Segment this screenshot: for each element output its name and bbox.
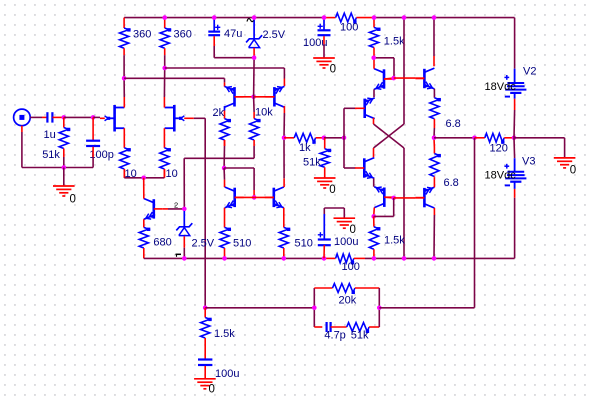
resistor 100 (rail, R3): [324, 13, 374, 23]
wire 51k bottom to gnd row: [63, 157, 65, 168]
ground 0 below C2: [313, 58, 336, 76]
svg-text:20k: 20k: [339, 295, 357, 307]
zener 2.5V D1 symbol: [246, 19, 262, 48]
resistor 51k (feedback, R21): [347, 323, 369, 332]
wire 360-left bottom to node A: [123, 55, 125, 78]
node D2 junction (Q3 base / zener): [182, 207, 187, 212]
feedback node junction (J2 gate / 1.5k / 20k): [203, 306, 208, 311]
svg-text:V3: V3: [522, 156, 535, 168]
svg-text:4.7p: 4.7p: [324, 330, 345, 342]
pin mark 1 of D2: [176, 253, 182, 255]
wire 2k bottom to node E: [224, 140, 226, 146]
svg-text:2: 2: [174, 201, 178, 210]
top supply rail wire (V+ rail): [124, 17, 324, 19]
wire R7 bottom to tail node: [163, 169, 165, 178]
input source V1 (circle symbol): [14, 109, 31, 126]
wire Q6 collector down to X: [373, 118, 375, 124]
wire C5 top U-path to ground: [323, 208, 325, 214]
ground 0 at bottom: [194, 379, 216, 396]
svg-text:18Vdc: 18Vdc: [485, 81, 517, 93]
resistor 6.8 (lower, R17): [430, 148, 441, 178]
junction x404 wire on rail: [402, 15, 407, 20]
junction D2 anode on bottom rail: [182, 256, 187, 261]
diode-tie node junction: [371, 214, 376, 219]
wire Q10 collector down to bottom rail: [433, 208, 435, 215]
wire V2- lead down to supply mid node: [514, 93, 516, 99]
junction Q7 collector on rail: [432, 15, 437, 20]
supply mid node junction: [512, 136, 517, 141]
row A wire to Q1 emitter: [124, 77, 224, 79]
node 1.5k-bottom junction: [371, 56, 376, 61]
node I junction (Q9 base): [391, 196, 396, 201]
svg-text:1.5k: 1.5k: [384, 235, 405, 247]
wire Q8 base stub: [355, 167, 356, 169]
wire R22 to C7: [204, 345, 206, 359]
capacitor 47u C1 plates: [208, 25, 220, 36]
wire Q5 collector up to mid node: [283, 178, 285, 187]
junction 510-left on bottom rail: [222, 256, 227, 261]
top rail wire right of 100 resistor: [374, 17, 515, 19]
wire node C to node D: [64, 116, 93, 118]
junction 1.5k R4 on rail: [372, 15, 377, 20]
svg-text:1k: 1k: [299, 142, 311, 154]
svg-text:0: 0: [330, 64, 336, 76]
wire 4.7p to 51k: [331, 326, 347, 328]
feedback column wire (x=205) down to feedback node: [204, 118, 206, 307]
ground 0 below R14: [314, 178, 336, 196]
voltage source V3 18Vdc: [485, 156, 536, 186]
bottom rail wire right of 100 resistor: [365, 257, 515, 259]
resistor 1k (R13): [284, 133, 324, 143]
svg-text:6.8: 6.8: [444, 177, 459, 189]
junction 1.5k-lower on bottom rail: [372, 256, 377, 261]
lower common base node junction: [252, 195, 257, 200]
svg-text:18Vdc: 18Vdc: [485, 170, 517, 182]
resistor 51k (input, R5): [59, 117, 70, 157]
wire Q8 collector up to X: [373, 148, 375, 157]
svg-text:510: 510: [233, 238, 251, 250]
svg-text:1.5k: 1.5k: [384, 36, 405, 48]
resistor 10k (R10): [250, 119, 261, 146]
svg-text:1u: 1u: [44, 129, 56, 141]
row B wire to Q2 emitter: [165, 67, 285, 69]
wire Q6 base stub: [355, 107, 357, 109]
node A junction (360-left / row A / J1 drain): [122, 76, 127, 81]
resistor 1.5k (lower, R16): [369, 227, 380, 259]
capacitor 4.7p C6: [327, 322, 331, 332]
wire J1 source down to 10-ohm resistor: [123, 128, 125, 148]
wire node G down to Q8 base: [343, 138, 345, 168]
node C junction: [62, 115, 67, 120]
pin mark 2 of D1: [247, 19, 254, 22]
feedback tap node junction: [472, 136, 477, 141]
capacitor 100u C2 top lead from rail: [323, 18, 325, 30]
svg-text:680: 680: [153, 237, 171, 249]
capacitor 100u C5 top lead: [323, 214, 325, 239]
feedback box left edge wire: [313, 288, 315, 327]
svg-text:0: 0: [570, 165, 576, 177]
svg-text:51k: 51k: [42, 149, 60, 161]
svg-text:360: 360: [174, 29, 192, 41]
wire Q5A collector to 1.5k node: [373, 58, 375, 69]
capacitor 47u C1 top lead from rail: [213, 18, 215, 32]
wire Q7 emitter to 6.8-upper: [433, 89, 435, 98]
wire Q5 base: [254, 196, 274, 198]
wire node D to J1 gate: [93, 116, 100, 118]
node box-right junction: [377, 306, 382, 311]
resistor 680 (R8): [139, 227, 150, 258]
wire Q7 base stub: [415, 77, 424, 79]
row C wire (10k bottom to D2 top column): [184, 157, 254, 159]
capacitor 1u C3: [47, 112, 52, 122]
row D wire node E to lower base column: [224, 167, 254, 169]
svg-text:100u: 100u: [215, 368, 239, 380]
svg-text:0: 0: [209, 384, 215, 396]
svg-text:0: 0: [70, 194, 76, 206]
transistor Q6 (upper driver): [356, 96, 375, 118]
input ground node junction: [62, 165, 67, 170]
wire 6.8-upper to output node: [433, 128, 435, 138]
wire D2 anode to bottom rail: [183, 236, 185, 247]
junction x404 on bottom rail: [402, 256, 407, 261]
wire 1.5k bottom node to Q5 base corner: [374, 57, 394, 59]
wire source bottom to gnd row: [21, 126, 23, 132]
resistor 10 (left, R6): [120, 148, 131, 178]
wire Q3 base to zener D2 node: [163, 208, 168, 210]
voltage source V2 18Vdc: [485, 66, 537, 97]
capacitor 100p C4 plates: [86, 141, 100, 146]
wire V+ rail corner down to V2+: [514, 18, 516, 69]
transistor Q4 (lower-left): [225, 187, 244, 209]
svg-text:120: 120: [490, 143, 508, 155]
wire Q1 base to common base node: [235, 96, 254, 98]
svg-text:V2: V2: [523, 66, 536, 78]
cross-couple diagonal X wire 1: [374, 124, 405, 148]
svg-text:51k: 51k: [303, 157, 321, 169]
wire output node to feedback tap node: [434, 137, 475, 139]
wire node H to Q7 base: [394, 77, 416, 79]
svg-text:0: 0: [329, 184, 335, 196]
common base node junction (Q1/Q2/10k): [251, 95, 256, 100]
ground 0 above bottom rail: [334, 218, 356, 236]
junction Q10 collector on bottom rail: [432, 256, 437, 261]
wire J2 drain up to node B: [163, 97, 165, 108]
resistor 51k (mid, R14): [320, 138, 331, 178]
svg-text:6.8: 6.8: [446, 118, 461, 130]
wire Q5 emitter to 510-right: [283, 208, 285, 228]
transistor Q2 (upper-right mirror): [265, 85, 284, 107]
capacitor 100u C7 plates: [198, 360, 212, 366]
node box-left junction: [312, 306, 317, 311]
wire C7 to bottom ground: [204, 366, 206, 378]
JFET J1 (left): [105, 105, 125, 132]
wire V3- lead down to bottom rail: [514, 182, 516, 189]
svg-text:2.5V: 2.5V: [192, 238, 215, 250]
svg-text:10k: 10k: [255, 107, 273, 119]
resistor 510 (right, R12): [279, 227, 290, 258]
svg-text:360: 360: [133, 29, 151, 41]
wire 100p bottom to gnd row: [92, 147, 94, 157]
wire Q2 base: [254, 96, 275, 98]
wire Q9 base to node I: [384, 196, 393, 199]
wire lower base column to base node: [253, 190, 255, 197]
ground 0 at input: [53, 186, 76, 206]
resistor 360 (right, R2): [160, 18, 171, 56]
wire Q1 collector to 2k: [224, 106, 226, 110]
svg-text:0: 0: [350, 224, 356, 236]
wire Q3 emitter to 680: [143, 219, 145, 227]
svg-text:2k: 2k: [213, 107, 225, 119]
bottom rail wire (V- rail): [144, 257, 324, 259]
JFET J2 (right): [165, 105, 185, 132]
wire Q10 base stub: [415, 197, 424, 199]
resistor 120 (R18): [475, 133, 515, 143]
transistor Q5a (top-left, Q5A): [374, 69, 393, 91]
capacitor 100p C4 top lead: [92, 117, 94, 140]
transistor Q10 (bottom-right follower): [415, 186, 434, 208]
wire diode-tie node to 1.5k lower: [373, 216, 375, 226]
feedback box right edge wire: [378, 288, 380, 327]
wire box to output tap corner: [379, 307, 474, 309]
node B junction (360-right / row B / J2 drain): [162, 66, 167, 71]
resistor 510 (left, R11): [220, 227, 231, 258]
wire Q2 collector down to mid node: [283, 106, 285, 113]
node E junction (2k / row D / Q4 collector): [222, 166, 227, 171]
transistor Q3 (tail current source): [144, 199, 163, 221]
wire Q10 emitter up to 6.8-lower: [433, 178, 435, 188]
wire Q5A emitter down to Q6 emitter: [373, 89, 375, 97]
junction 100u C2 on rail: [322, 15, 327, 20]
svg-text:1.5k: 1.5k: [214, 328, 235, 340]
wire R6 bottom to tail node: [123, 169, 125, 178]
resistor 360 (left, R1): [120, 18, 131, 56]
svg-text:100u: 100u: [334, 236, 358, 248]
junction 360-right on rail: [162, 15, 167, 20]
wire base node down to 10k: [253, 97, 256, 112]
wire C5 bottom to rail: [323, 245, 325, 258]
node H junction (Q5A base / Q7 base wire): [391, 76, 396, 81]
wire feedback node to 20k box: [205, 307, 314, 309]
resistor 10 (right, R7): [160, 148, 171, 178]
junction 100u-C5 on bottom rail: [322, 256, 327, 261]
wire supply mid node to right ground: [514, 137, 565, 139]
resistor 100 (bottom rail, R19): [324, 254, 365, 264]
wire 4.7p lead: [314, 326, 322, 328]
transistor Q7 (top-right follower): [415, 68, 434, 90]
svg-text:47u: 47u: [224, 28, 242, 40]
svg-text:10: 10: [166, 168, 178, 180]
wire node F to node G: [324, 137, 344, 139]
wire V2+ lead: [514, 69, 516, 83]
tail node junction: [141, 176, 146, 181]
capacitor 100u C2 plates: [318, 24, 331, 36]
resistor 1.5k (upper right, R4): [369, 18, 380, 58]
wire 1u to node C: [52, 116, 63, 118]
transistor Q8 (lower driver): [355, 158, 374, 180]
node D junction: [91, 115, 96, 120]
resistor 6.8 (upper, R15): [430, 98, 441, 128]
wire down to input ground: [63, 168, 65, 186]
wire rail to Q7 collector (x=434): [433, 18, 435, 56]
junction 510-right on bottom rail: [282, 256, 287, 261]
resistor 2k (R9): [220, 119, 231, 146]
resistor 20k (R20): [314, 284, 379, 294]
svg-text:100: 100: [340, 22, 358, 34]
wire source to 1u cap: [30, 116, 42, 118]
wire Q3 collector up to tail node: [143, 196, 145, 199]
svg-text:51k: 51k: [351, 330, 369, 342]
node zener D1 anode junction: [252, 55, 257, 60]
wire Q8 emitter down to Q9 emitter: [373, 178, 375, 186]
wire zener D1 node to base node (x=254): [253, 58, 256, 97]
cross-couple diagonal X wire 2: [374, 124, 405, 148]
node G junction: [342, 136, 347, 141]
wire output node to 6.8-lower: [433, 138, 435, 148]
svg-text:100: 100: [342, 261, 360, 273]
wire Q4 emitter to 510-left: [224, 208, 226, 228]
long vertical wire from rail to cross-couple X (x=404): [403, 18, 405, 124]
node F junction (1k / 51k): [322, 136, 327, 141]
ground 0 at right: [554, 158, 576, 177]
wire 360-right bottom to node B: [164, 55, 166, 68]
junction 47u on rail: [212, 15, 217, 20]
wire 51k to box right edge: [369, 326, 379, 328]
wire Q9 collector down to diode-tie node: [373, 208, 376, 217]
wire J1 drain up to node A: [123, 97, 125, 108]
wire D1 anode to node (254,58): [253, 48, 255, 58]
wire 47u bottom lead: [213, 36, 215, 46]
wire Q5A base to node H: [384, 77, 394, 80]
long vertical wire from cross-couple X to bottom rail (x=404): [403, 148, 405, 258]
wire V3+ lead from supply mid node: [513, 138, 516, 158]
transistor Q9 (bottom-left): [374, 185, 393, 207]
wire node I to Q10 base: [394, 197, 416, 199]
svg-text:510: 510: [295, 238, 313, 250]
junction zener D1 on rail: [252, 15, 257, 20]
mid node junction (Q2/Q5 collectors / 1k): [282, 136, 287, 141]
wire row C corner down to D2 node: [183, 158, 185, 209]
transistor Q5 (lower-right): [265, 187, 284, 209]
svg-text:2.5V: 2.5V: [263, 29, 286, 41]
wire J2 source down to 10-ohm resistor: [163, 128, 165, 148]
wire J2 gate from feedback column: [194, 117, 206, 119]
wire C2 bottom to ground: [323, 36, 325, 44]
zener 2.5V D2 symbol: [176, 211, 192, 236]
wire 10k bottom to row C: [253, 146, 255, 158]
capacitor 100u C5 plates: [318, 232, 331, 245]
transistor Q1 (upper-left mirror): [225, 85, 244, 107]
output node junction: [432, 136, 437, 141]
resistor 1.5k (bottom, R22): [201, 308, 212, 345]
wire Q4 collector up to node E: [224, 180, 226, 188]
wire node G up to Q6 base: [343, 108, 345, 138]
wire Q4 base: [235, 196, 254, 198]
wire node I down and left to diode-tie node: [393, 198, 395, 217]
